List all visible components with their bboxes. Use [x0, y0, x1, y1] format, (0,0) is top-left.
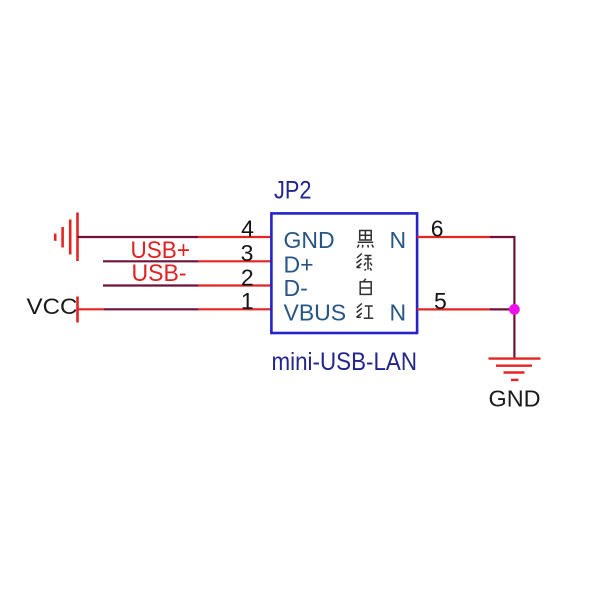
- svg-text:3: 3: [241, 240, 254, 266]
- svg-text:GND: GND: [489, 386, 541, 412]
- svg-text:1: 1: [241, 288, 254, 314]
- svg-text:N: N: [390, 299, 407, 325]
- svg-text:D-: D-: [284, 275, 308, 301]
- pin 6: [417, 236, 490, 238]
- connector JP2 body: [271, 213, 417, 333]
- svg-text:mini-USB-LAN: mini-USB-LAN: [272, 348, 418, 376]
- label red char (hong): [357, 304, 374, 319]
- svg-text:GND: GND: [284, 227, 335, 253]
- svg-text:USB-: USB-: [132, 260, 187, 287]
- ground symbol (left, rotated): [55, 213, 77, 262]
- label black char (hei): [357, 231, 373, 248]
- svg-text:VCC: VCC: [27, 294, 78, 319]
- label green char (lv): [357, 254, 373, 271]
- wire: [490, 237, 514, 309]
- svg-text:VBUS: VBUS: [284, 299, 347, 325]
- pin 3: [198, 260, 271, 262]
- wire: [103, 260, 198, 262]
- svg-text:D+: D+: [284, 251, 314, 277]
- wire: [513, 309, 515, 358]
- svg-text:JP2: JP2: [274, 177, 312, 205]
- svg-text:5: 5: [434, 288, 447, 314]
- svg-text:2: 2: [241, 264, 254, 290]
- ground symbol (bottom right): [489, 359, 541, 380]
- label white char (bai): [360, 279, 371, 295]
- svg-text:6: 6: [431, 216, 444, 242]
- svg-text:N: N: [390, 227, 407, 253]
- pin 1: [198, 308, 271, 310]
- svg-text:4: 4: [241, 216, 254, 242]
- wire: [78, 236, 199, 238]
- pin 2: [198, 284, 271, 286]
- pin 5: [417, 308, 490, 310]
- wire: [103, 284, 198, 286]
- pin 4: [198, 236, 271, 238]
- wire: [490, 308, 514, 310]
- wire: [104, 308, 198, 310]
- junction: [509, 304, 520, 315]
